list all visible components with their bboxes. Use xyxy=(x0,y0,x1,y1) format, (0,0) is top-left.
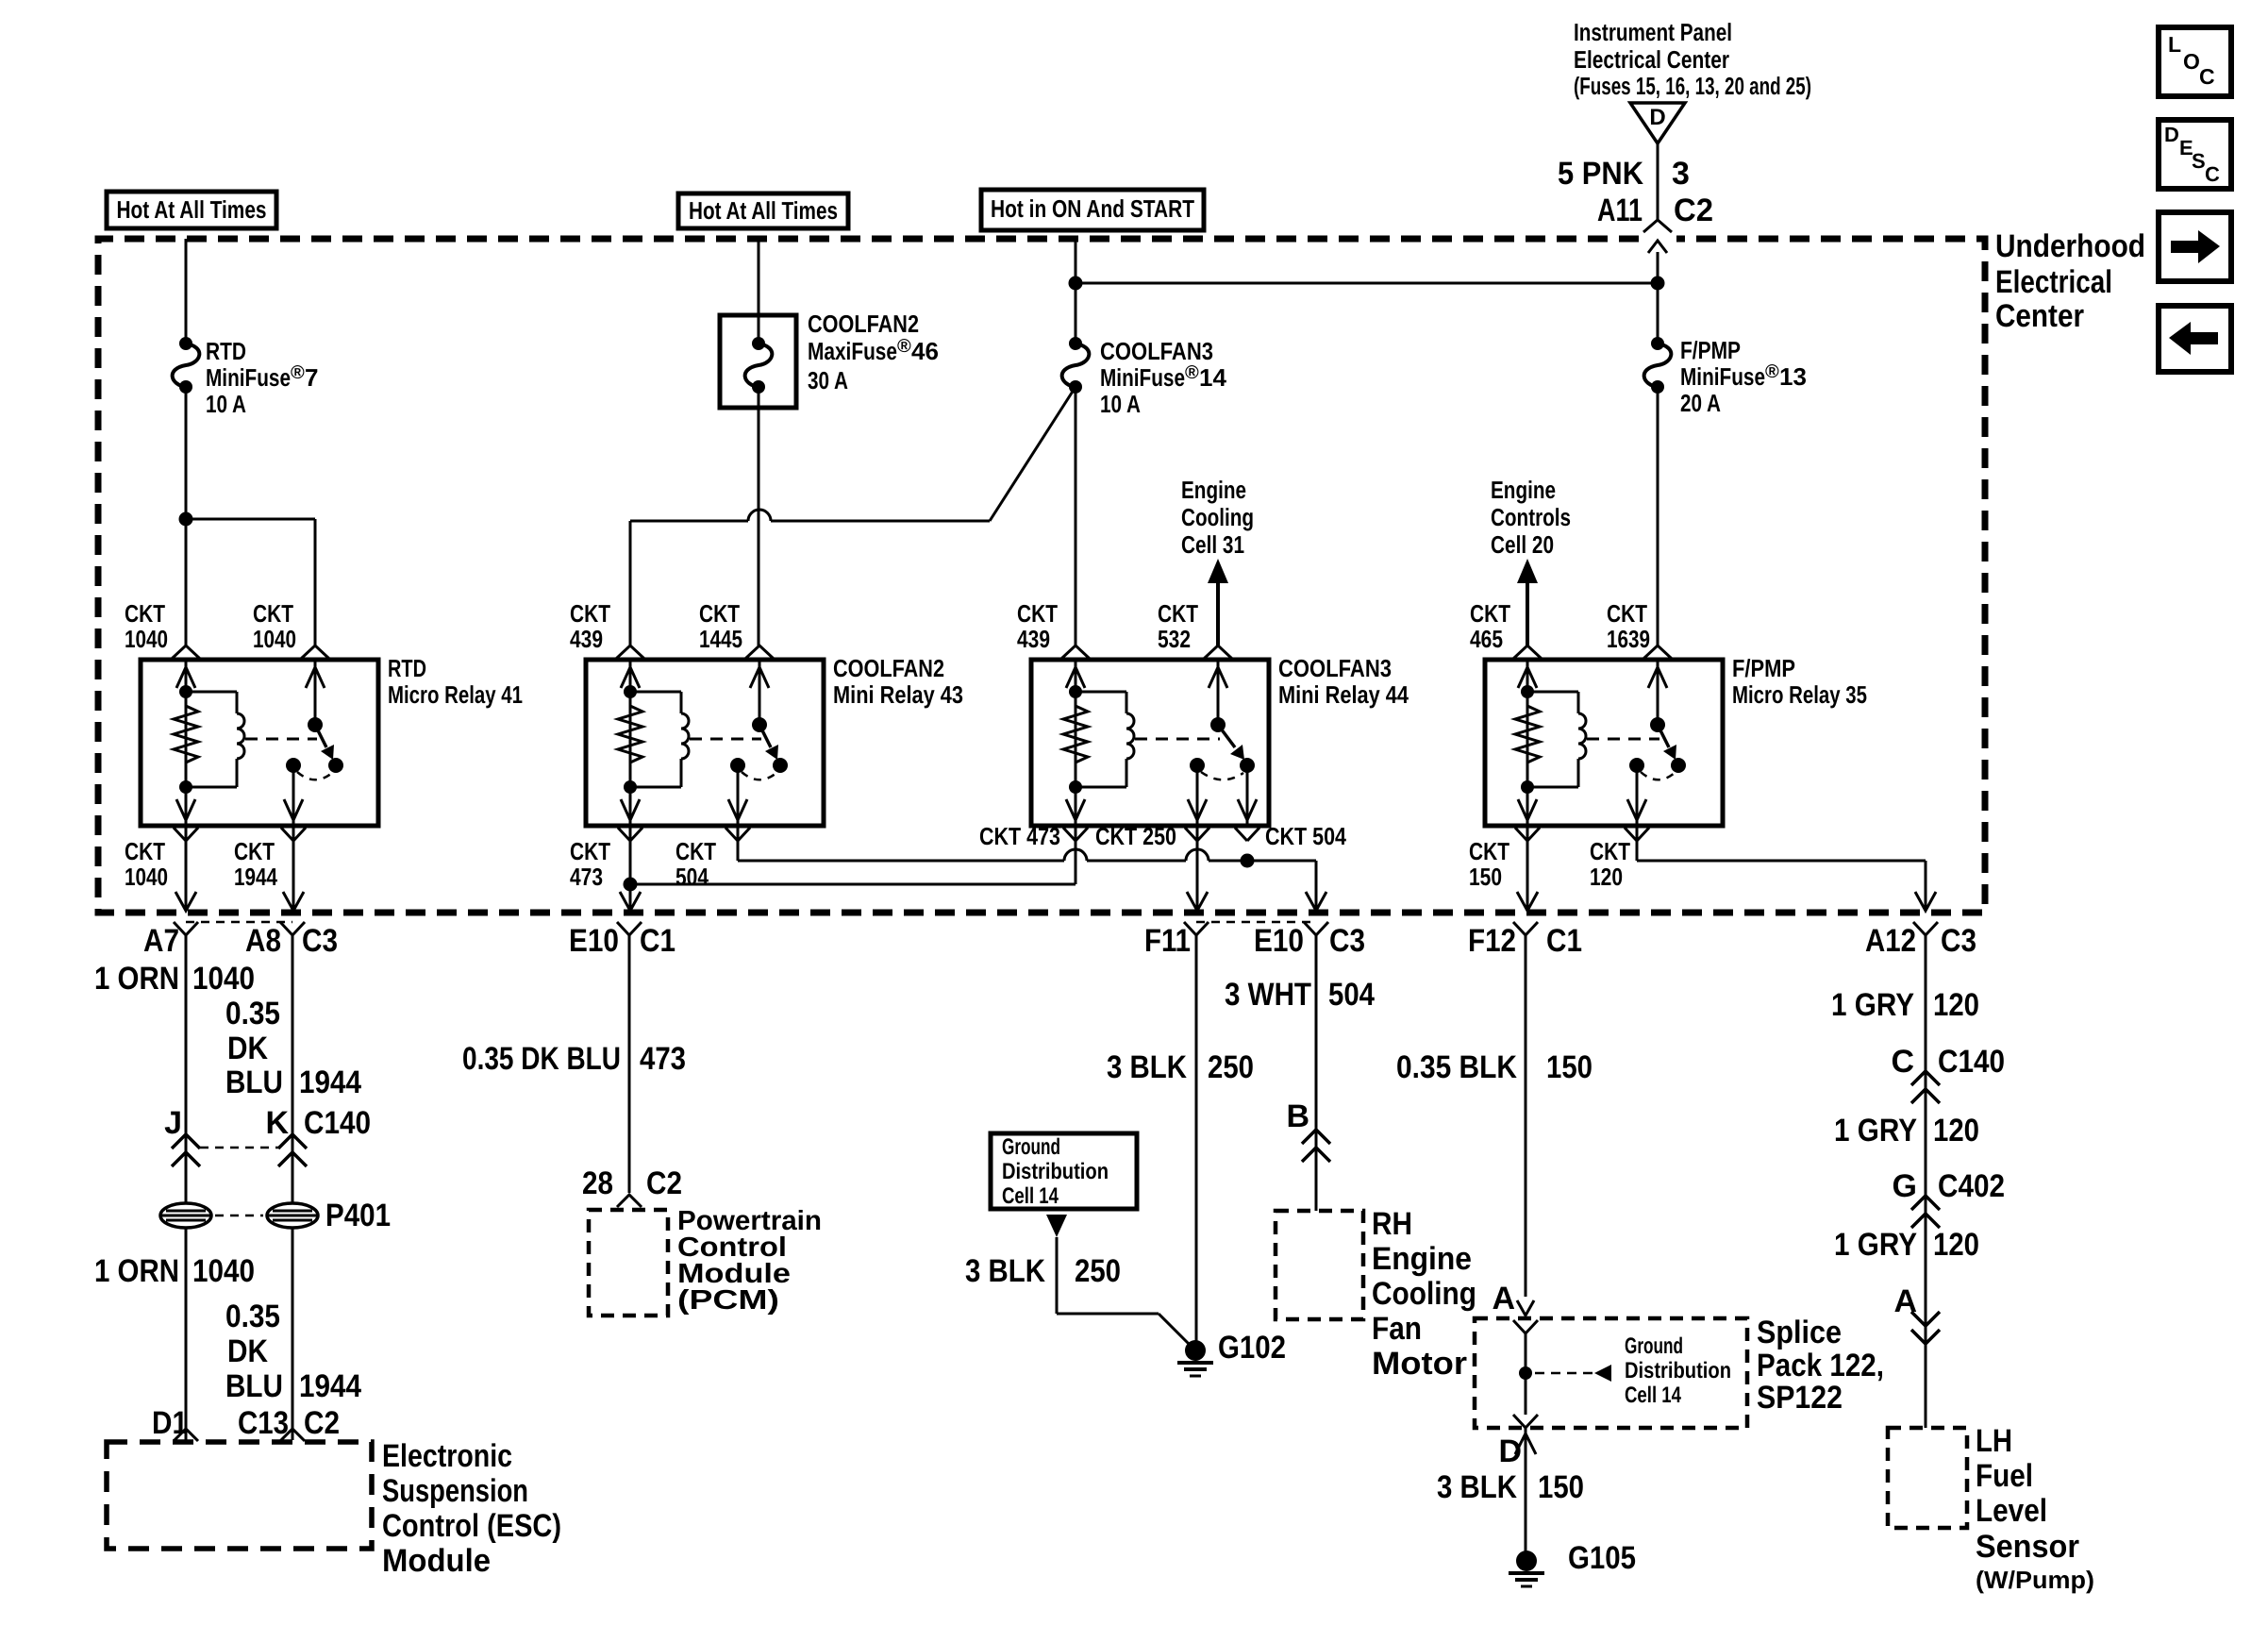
wire: relay 43 contact out (CKT 504) across to RH fan feed xyxy=(737,826,740,861)
svg-text:Cell 31: Cell 31 xyxy=(1181,530,1244,559)
svg-text:(PCM): (PCM) xyxy=(677,1285,779,1316)
svg-text:250: 250 xyxy=(1208,1049,1254,1085)
svg-text:150: 150 xyxy=(1546,1049,1593,1085)
svg-text:Mini Relay 44: Mini Relay 44 xyxy=(1278,680,1409,709)
svg-text:C140: C140 xyxy=(1938,1044,2005,1080)
svg-text:C: C xyxy=(2199,64,2215,89)
icon box left-arrow xyxy=(2159,306,2231,372)
svg-text:Engine: Engine xyxy=(1491,476,1556,504)
svg-text:C: C xyxy=(1891,1044,1914,1080)
svg-text:1 ORN: 1 ORN xyxy=(94,961,179,997)
svg-text:Distribution: Distribution xyxy=(1002,1159,1109,1184)
in-line connector C140 pins J/K xyxy=(172,1134,200,1148)
svg-text:Cell 20: Cell 20 xyxy=(1491,530,1554,559)
svg-text:1040: 1040 xyxy=(253,625,296,653)
svg-text:Control (ESC): Control (ESC) xyxy=(382,1508,561,1544)
svg-text:COOLFAN2: COOLFAN2 xyxy=(833,654,944,682)
icon box DESC xyxy=(2159,120,2231,189)
svg-text:MaxiFuse: MaxiFuse xyxy=(808,337,897,365)
svg-text:L: L xyxy=(2168,32,2181,57)
wire: 1 ORN to ESC module xyxy=(185,1228,188,1440)
svg-text:BLU: BLU xyxy=(225,1368,283,1404)
svg-text:RH: RH xyxy=(1372,1206,1412,1242)
wire: 0.35 DK BLU 473 to PCM xyxy=(628,935,631,1193)
svg-text:(Fuses 15, 16, 13, 20 and 25): (Fuses 15, 16, 13, 20 and 25) xyxy=(1574,72,1811,100)
svg-text:465: 465 xyxy=(1470,625,1503,653)
grommet P401 (right) xyxy=(267,1203,318,1228)
wire: COOLFAN3 feed from dashed line to fuse xyxy=(1075,239,1077,283)
svg-text:1 GRY: 1 GRY xyxy=(1831,987,1914,1023)
svg-text:C3: C3 xyxy=(1941,923,1976,959)
svg-text:0.35: 0.35 xyxy=(225,996,280,1031)
svg-text:P401: P401 xyxy=(325,1198,391,1233)
wire: 5 PNK 3 circuit from triangle D to Underhood box (node A11/C2) xyxy=(1657,143,1659,220)
wire: relay 43 coil out (CKT 473) down xyxy=(629,826,632,911)
connector pin at PCM xyxy=(617,1195,642,1207)
svg-text:CKT: CKT xyxy=(1158,599,1198,628)
arrow to Engine Cooling Cell 31 (CKT 532) xyxy=(1216,582,1220,645)
svg-text:Micro Relay 35: Micro Relay 35 xyxy=(1732,680,1867,709)
svg-text:1 GRY: 1 GRY xyxy=(1834,1113,1917,1148)
svg-text:1 ORN: 1 ORN xyxy=(94,1253,179,1289)
splice pack box: Splice Pack 122 SP122 (dashed) xyxy=(1475,1318,1747,1428)
icon box right-arrow xyxy=(2159,212,2231,281)
svg-text:Underhood: Underhood xyxy=(1995,228,2145,264)
svg-text:3: 3 xyxy=(1672,156,1690,192)
svg-text:10 A: 10 A xyxy=(1100,390,1141,418)
svg-text:Electrical Center: Electrical Center xyxy=(1574,45,1729,74)
svg-text:D: D xyxy=(2164,123,2179,146)
svg-text:A8: A8 xyxy=(245,923,281,959)
svg-text:Pack 122,: Pack 122, xyxy=(1757,1348,1884,1383)
svg-text:CKT: CKT xyxy=(1590,837,1630,865)
wire: COOLFAN2 fuse output down to relay 43 switch xyxy=(758,387,760,645)
connector pin A12/C3 at Underhood box exit xyxy=(1913,922,1938,935)
svg-text:Cooling: Cooling xyxy=(1181,503,1254,531)
svg-text:120: 120 xyxy=(1933,987,1979,1023)
wire: COOLFAN2 feed from dashed line to fuse box xyxy=(758,239,760,344)
svg-text:K: K xyxy=(265,1105,289,1141)
svg-text:C2: C2 xyxy=(304,1405,340,1441)
svg-text:5 PNK: 5 PNK xyxy=(1558,156,1643,192)
power feed label box: Hot in ON And START xyxy=(981,190,1204,230)
wire: RTD junction down to relay 41 coil xyxy=(185,519,188,645)
svg-text:120: 120 xyxy=(1590,863,1623,891)
svg-text:DK: DK xyxy=(227,1031,268,1066)
svg-text:A7: A7 xyxy=(143,923,179,959)
wire: COOLFAN3 fuse output down to relay 44 coil xyxy=(1075,387,1077,645)
svg-text:CKT 473: CKT 473 xyxy=(979,822,1060,850)
connector chevron A11 above dashed line xyxy=(1643,220,1672,232)
wire: RTD fuse output down to junction xyxy=(185,387,188,519)
svg-text:28: 28 xyxy=(582,1165,613,1201)
reference link to Ground Distribution Cell 14 xyxy=(1535,1372,1593,1375)
svg-text:Electronic: Electronic xyxy=(382,1438,512,1474)
junction node COOLFAN3/FPMP feed xyxy=(1069,277,1083,291)
svg-text:Ground: Ground xyxy=(1625,1333,1683,1359)
svg-text:CKT: CKT xyxy=(570,599,610,628)
svg-text:Engine: Engine xyxy=(1372,1241,1472,1277)
svg-text:Cooling: Cooling xyxy=(1372,1276,1476,1312)
svg-text:COOLFAN3: COOLFAN3 xyxy=(1278,654,1392,682)
svg-text:RTD: RTD xyxy=(206,337,246,365)
svg-text:COOLFAN3: COOLFAN3 xyxy=(1100,337,1213,365)
svg-text:1040: 1040 xyxy=(125,863,168,891)
svg-text:Fuel: Fuel xyxy=(1976,1458,2033,1494)
svg-text:CKT: CKT xyxy=(570,837,610,865)
svg-text:®: ® xyxy=(1765,361,1779,382)
in-line connector C402 pin G xyxy=(1911,1196,1940,1210)
svg-text:Instrument Panel: Instrument Panel xyxy=(1574,18,1732,46)
connector pin F11 at Underhood box exit xyxy=(1184,922,1209,935)
svg-text:20 A: 20 A xyxy=(1680,389,1721,417)
svg-text:473: 473 xyxy=(640,1041,686,1077)
connector pin out of splice pack xyxy=(1513,1415,1538,1428)
svg-text:0.35 BLK: 0.35 BLK xyxy=(1396,1049,1517,1085)
svg-text:0.35: 0.35 xyxy=(225,1299,280,1334)
svg-text:7: 7 xyxy=(305,363,318,392)
wire: 3 BLK 250 to ground G102 xyxy=(1195,935,1198,1344)
svg-text:1944: 1944 xyxy=(299,1064,361,1100)
svg-text:G105: G105 xyxy=(1568,1540,1636,1576)
svg-text:Electrical: Electrical xyxy=(1995,264,2112,300)
svg-text:504: 504 xyxy=(675,863,709,891)
wire: splice pack internal xyxy=(1525,1333,1527,1415)
svg-text:SP122: SP122 xyxy=(1757,1380,1843,1416)
svg-text:Splice: Splice xyxy=(1757,1315,1842,1350)
fuse COOLFAN2 MaxiFuse 46 (30A) xyxy=(752,337,765,350)
wire: 3 BLK 150 to ground G105 xyxy=(1525,1428,1527,1552)
svg-text:Center: Center xyxy=(1995,298,2084,334)
fuse RTD MiniFuse 7 (10A) xyxy=(179,337,192,350)
svg-text:3 WHT: 3 WHT xyxy=(1225,977,1311,1013)
ground G105 xyxy=(1516,1551,1537,1571)
svg-text:®: ® xyxy=(897,336,911,357)
svg-text:Controls: Controls xyxy=(1491,503,1571,531)
svg-text:C13: C13 xyxy=(238,1405,289,1441)
svg-text:14: 14 xyxy=(1199,363,1226,392)
wire: F/PMP fuse output down to relay 35 switch xyxy=(1657,387,1659,645)
svg-text:C: C xyxy=(2205,162,2220,186)
svg-text:C1: C1 xyxy=(640,923,675,959)
svg-text:F11: F11 xyxy=(1144,923,1191,959)
wire: relay 44 contact out (CKT 250) to dashed line xyxy=(1196,826,1199,911)
svg-text:CKT: CKT xyxy=(1470,599,1510,628)
svg-text:CKT 250: CKT 250 xyxy=(1095,822,1176,850)
svg-text:1944: 1944 xyxy=(299,1368,361,1404)
svg-text:1040: 1040 xyxy=(192,961,255,997)
wire: COOLFAN3 fuse output diagonal to relay 43 coil xyxy=(990,387,1076,521)
svg-text:A: A xyxy=(1492,1281,1515,1316)
connector pins at ESC module xyxy=(174,1429,198,1441)
connector pin E10/C1 at Underhood box exit xyxy=(617,922,642,935)
svg-text:C2: C2 xyxy=(1674,193,1713,228)
icon box LOC xyxy=(2159,27,2231,96)
wire: relay 41 coil out (CKT 1040) to dashed line xyxy=(185,826,188,911)
arrow to Engine Controls Cell 20 (CKT 465) xyxy=(1526,582,1529,645)
svg-text:F12: F12 xyxy=(1468,923,1516,959)
junction node on RTD circuit xyxy=(179,512,193,527)
svg-text:CKT: CKT xyxy=(125,599,165,628)
svg-text:CKT: CKT xyxy=(1607,599,1647,628)
module box: RH Engine Cooling Fan Motor (dashed) xyxy=(1276,1211,1363,1319)
svg-text:D1: D1 xyxy=(152,1405,188,1441)
svg-text:CKT: CKT xyxy=(699,599,740,628)
arrow from Ground Distribution reference xyxy=(1046,1215,1067,1237)
Underhood Electrical Center dashed boundary box xyxy=(98,239,1985,913)
svg-text:A12: A12 xyxy=(1865,923,1916,959)
svg-text:1445: 1445 xyxy=(699,625,742,653)
svg-text:F/PMP: F/PMP xyxy=(1680,336,1741,364)
svg-text:Distribution: Distribution xyxy=(1625,1358,1731,1383)
in-line connector C140 pin C xyxy=(1911,1071,1940,1085)
wire: relay 35 contact out (CKT 120) across and down to dashed line xyxy=(1636,826,1639,861)
connector pin E10/C3 at Underhood box exit xyxy=(1304,922,1328,935)
svg-text:Fan: Fan xyxy=(1372,1311,1422,1347)
svg-text:150: 150 xyxy=(1538,1469,1584,1505)
svg-text:Level: Level xyxy=(1976,1493,2047,1529)
power feed label box: Hot At All Times (middle) xyxy=(678,193,848,228)
svg-text:CKT: CKT xyxy=(1469,837,1509,865)
fuse F/PMP MiniFuse 13 (20A) xyxy=(1651,337,1664,350)
wire: relay 44 coil out (CKT 473) crossover to relay 43 output xyxy=(1075,826,1077,884)
svg-text:1040: 1040 xyxy=(192,1253,255,1289)
svg-text:120: 120 xyxy=(1933,1113,1979,1148)
wire: relay 35 coil out (CKT 150) to dashed line xyxy=(1526,826,1529,911)
svg-text:E10: E10 xyxy=(1254,923,1304,959)
connector pin into splice pack xyxy=(1513,1320,1538,1333)
module box: LH Fuel Level Sensor (dashed) xyxy=(1888,1428,1967,1528)
svg-text:COOLFAN2: COOLFAN2 xyxy=(808,310,919,338)
connector pins A7/A8 at Underhood box exit xyxy=(174,922,198,935)
svg-text:10 A: 10 A xyxy=(206,390,246,418)
svg-text:3 BLK: 3 BLK xyxy=(965,1253,1045,1289)
svg-text:C1: C1 xyxy=(1546,923,1582,959)
svg-text:30 A: 30 A xyxy=(808,366,848,394)
svg-text:13: 13 xyxy=(1779,362,1807,391)
svg-text:Hot At All Times: Hot At All Times xyxy=(117,195,267,224)
wire: relay 41 contact out (CKT 1944) to dashed line xyxy=(292,826,295,911)
svg-text:3 BLK: 3 BLK xyxy=(1437,1469,1517,1505)
svg-text:C402: C402 xyxy=(1938,1168,2005,1204)
svg-text:Ground: Ground xyxy=(1002,1134,1060,1160)
wire: RTD feed from dashed line down to fuse xyxy=(185,239,188,344)
svg-text:S: S xyxy=(2192,149,2206,173)
svg-text:(W/Pump): (W/Pump) xyxy=(1976,1566,2094,1594)
reference box: Ground Distribution Cell 14 xyxy=(991,1133,1137,1209)
junction node SP122 xyxy=(1519,1366,1532,1380)
module box: Powertrain Control Module (PCM) (dashed) xyxy=(589,1210,668,1316)
svg-text:504: 504 xyxy=(1328,977,1375,1013)
svg-text:1639: 1639 xyxy=(1607,625,1650,653)
svg-text:Hot At All Times: Hot At All Times xyxy=(689,196,838,225)
svg-text:C3: C3 xyxy=(1329,923,1365,959)
svg-text:E10: E10 xyxy=(569,923,619,959)
svg-text:1 GRY: 1 GRY xyxy=(1834,1227,1917,1263)
svg-text:D: D xyxy=(1498,1433,1522,1469)
svg-text:Cell 14: Cell 14 xyxy=(1625,1383,1681,1408)
svg-text:DK: DK xyxy=(227,1333,268,1369)
wire: feed crossover to F/PMP circuit xyxy=(1076,282,1658,285)
junction node CKT 504 xyxy=(1241,854,1255,868)
svg-text:150: 150 xyxy=(1469,863,1502,891)
arrow into Underhood box at C2 xyxy=(1648,241,1667,253)
svg-text:473: 473 xyxy=(570,863,603,891)
power feed label box: Hot At All Times (left) xyxy=(107,192,276,228)
svg-text:®: ® xyxy=(1185,362,1199,383)
wire: 1 GRY 120 segment 1 xyxy=(1925,935,1927,1428)
wire: 0.35 DK BLU to ESC module xyxy=(292,1228,294,1440)
module box: Electronic Suspension Control (ESC) Module (dashed) xyxy=(107,1442,372,1549)
svg-text:Micro Relay 41: Micro Relay 41 xyxy=(388,680,523,709)
in-line connector B xyxy=(1302,1130,1330,1144)
svg-text:Engine: Engine xyxy=(1181,476,1246,504)
svg-text:G: G xyxy=(1893,1168,1917,1204)
wire: 0.35 BLK 150 to splice pack xyxy=(1525,935,1527,1297)
triangle connector D (to Instrument Panel Electrical Center) xyxy=(1630,103,1685,143)
svg-text:®: ® xyxy=(291,362,305,383)
arrow into splice pack xyxy=(1517,1300,1534,1316)
svg-text:Suspension: Suspension xyxy=(382,1473,528,1509)
svg-text:MiniFuse: MiniFuse xyxy=(206,363,291,392)
svg-text:C3: C3 xyxy=(302,923,338,959)
grommet P401 (left) xyxy=(160,1203,211,1228)
wire: 3 BLK 250 ground distribution branch xyxy=(1056,1237,1059,1314)
svg-text:439: 439 xyxy=(1017,625,1050,653)
wire: 3 WHT 504 to RH fan motor xyxy=(1315,935,1318,1211)
junction node on F/PMP feed xyxy=(1651,277,1665,291)
relay RTD Micro Relay 41 xyxy=(141,660,378,826)
fuse box COOLFAN2 MaxiFuse 46 xyxy=(720,315,796,408)
svg-text:CKT: CKT xyxy=(253,599,293,628)
svg-text:B: B xyxy=(1286,1098,1309,1134)
svg-text:LH: LH xyxy=(1976,1423,2012,1459)
svg-text:1944: 1944 xyxy=(234,863,277,891)
svg-text:Hot in ON And START: Hot in ON And START xyxy=(991,194,1194,223)
svg-text:CKT 504: CKT 504 xyxy=(1265,822,1346,850)
svg-text:MiniFuse: MiniFuse xyxy=(1100,363,1185,392)
svg-text:D: D xyxy=(1649,105,1665,130)
wire: 1 ORN 1040 (ESC feed upper) xyxy=(185,935,188,1203)
wire: branch from RTD junction to relay 41 switch xyxy=(186,518,315,521)
svg-text:C2: C2 xyxy=(646,1165,682,1201)
svg-text:RTD: RTD xyxy=(388,654,426,682)
svg-text:0.35 DK BLU: 0.35 DK BLU xyxy=(462,1041,621,1077)
svg-text:Motor: Motor xyxy=(1372,1346,1467,1382)
svg-text:BLU: BLU xyxy=(225,1064,283,1100)
svg-text:CKT: CKT xyxy=(1017,599,1058,628)
svg-text:120: 120 xyxy=(1933,1227,1979,1263)
wire: 0.35 DK BLU 1944 (ESC signal upper) xyxy=(292,935,294,1203)
svg-text:46: 46 xyxy=(911,337,939,365)
svg-text:532: 532 xyxy=(1158,625,1191,653)
svg-text:CKT: CKT xyxy=(234,837,275,865)
svg-text:Sensor: Sensor xyxy=(1976,1529,2079,1565)
ground G102 xyxy=(1185,1340,1206,1361)
svg-text:A11: A11 xyxy=(1597,193,1643,228)
svg-text:CKT: CKT xyxy=(675,837,716,865)
svg-text:439: 439 xyxy=(570,625,603,653)
fuse COOLFAN3 MiniFuse 14 (10A) xyxy=(1075,283,1077,344)
relay F/PMP Micro Relay 35 xyxy=(1485,660,1723,826)
svg-text:1040: 1040 xyxy=(125,625,168,653)
svg-text:250: 250 xyxy=(1075,1253,1121,1289)
junction node CKT 473 xyxy=(624,878,638,892)
svg-text:MiniFuse: MiniFuse xyxy=(1680,362,1765,391)
svg-text:Module: Module xyxy=(382,1543,491,1579)
svg-text:CKT: CKT xyxy=(125,837,165,865)
svg-text:C140: C140 xyxy=(304,1105,371,1141)
connector pin F12/C1 at Underhood box exit xyxy=(1513,922,1538,935)
relay COOLFAN3 Mini Relay 44 xyxy=(1031,660,1269,826)
svg-text:Mini Relay 43: Mini Relay 43 xyxy=(833,680,963,709)
relay COOLFAN2 Mini Relay 43 xyxy=(586,660,824,826)
wire: F/PMP feed down to fuse xyxy=(1657,252,1659,344)
svg-text:F/PMP: F/PMP xyxy=(1732,654,1795,682)
svg-text:Cell 14: Cell 14 xyxy=(1002,1183,1059,1209)
svg-text:3 BLK: 3 BLK xyxy=(1107,1049,1187,1085)
svg-text:O: O xyxy=(2183,49,2200,74)
svg-text:G102: G102 xyxy=(1218,1330,1286,1366)
svg-text:J: J xyxy=(164,1105,182,1141)
